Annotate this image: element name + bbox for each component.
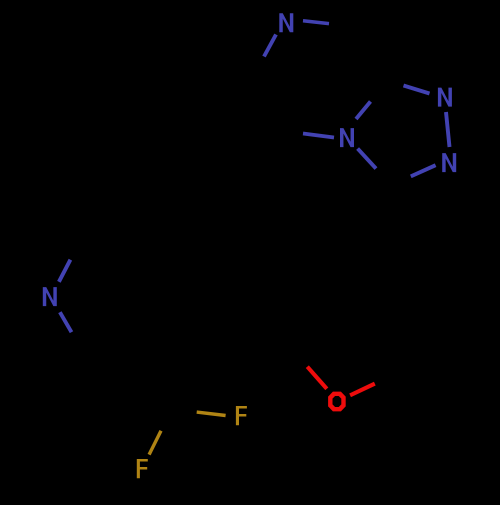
wire: half-bond stub N1-C8a (up-left) — [404, 86, 430, 94]
node N4: bridgehead nitrogen label — [340, 128, 354, 147]
wire: half-bond stub pyridine N (down-right) — [60, 312, 72, 332]
wire: half-bond stub N4-C8a (up-right) — [356, 102, 371, 120]
node F2: fluorine label (lower) — [137, 459, 148, 478]
wire: half-bond stub N4-C7 (left) — [303, 134, 334, 138]
wire: half-bond stub O-CH2 (up-left) — [307, 367, 327, 389]
wire: half-bond stub N5-C6 (pyrazine, down-left) — [264, 35, 276, 57]
wire: half-bond stub N4-C3 (down-right) — [358, 149, 376, 169]
wire: half-bond stub F2-C (up-right) — [149, 431, 161, 455]
wire: half-bond stub O-C (up-right) — [350, 384, 375, 396]
node N5: pyrazine nitrogen label — [279, 13, 293, 32]
wire: half-bond stub pyridine N (up-right) — [59, 260, 71, 282]
wire: half-bond stub N5-C8 (pyrazine, to the right) — [303, 21, 329, 24]
wire: half-bond stub F1-C (to the left) — [197, 412, 226, 415]
node N3: pyridine nitrogen label — [43, 287, 57, 306]
node F1: fluorine label (upper) — [236, 406, 247, 425]
wire: half-bond stub N2-C3 (down-left) — [411, 165, 436, 176]
node N1: triazole nitrogen label — [438, 88, 452, 107]
node O: ether oxygen label — [328, 392, 346, 412]
wire: bond N1-N2 (full blue) — [446, 112, 450, 147]
node N2: triazole nitrogen label — [442, 153, 456, 172]
